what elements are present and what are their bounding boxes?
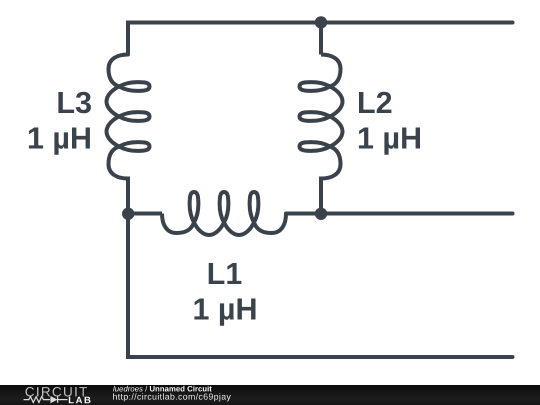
byline separator	[145, 386, 147, 392]
junction dot right node	[315, 208, 327, 220]
diode anode triangle	[50, 396, 57, 403]
value label L1	[194, 299, 255, 326]
diode cathode wire	[58, 399, 68, 401]
diode cathode bar	[57, 396, 59, 402]
CircuitLab logo wordmark CIRCUIT	[26, 387, 88, 397]
wire L3 bottom lead	[126, 177, 130, 214]
label L2	[359, 92, 391, 113]
inductor L1	[162, 192, 286, 235]
wire left drop and bottom rail	[128, 214, 513, 358]
wire L2 top lead	[319, 23, 323, 55]
wire node to L1 left lead	[128, 212, 162, 216]
footer url	[113, 393, 231, 401]
label L3	[58, 92, 91, 114]
wire top rail with corner to L3	[128, 23, 513, 55]
label L1	[209, 263, 242, 284]
junction dot left node	[122, 208, 134, 220]
footer bar	[0, 385, 540, 405]
wire L1 right lead to open end	[286, 212, 513, 216]
inductor L3	[107, 55, 150, 179]
CircuitLab logo wordmark LAB	[69, 397, 91, 404]
junction dot top at L2	[315, 16, 327, 28]
wire L2 bottom lead	[319, 177, 323, 214]
value label L3	[29, 128, 90, 155]
inductor L2	[300, 55, 343, 179]
byline circuit title	[150, 386, 212, 392]
value label L2	[359, 128, 420, 155]
resistor zigzag	[24, 397, 51, 403]
byline author name	[113, 386, 143, 392]
